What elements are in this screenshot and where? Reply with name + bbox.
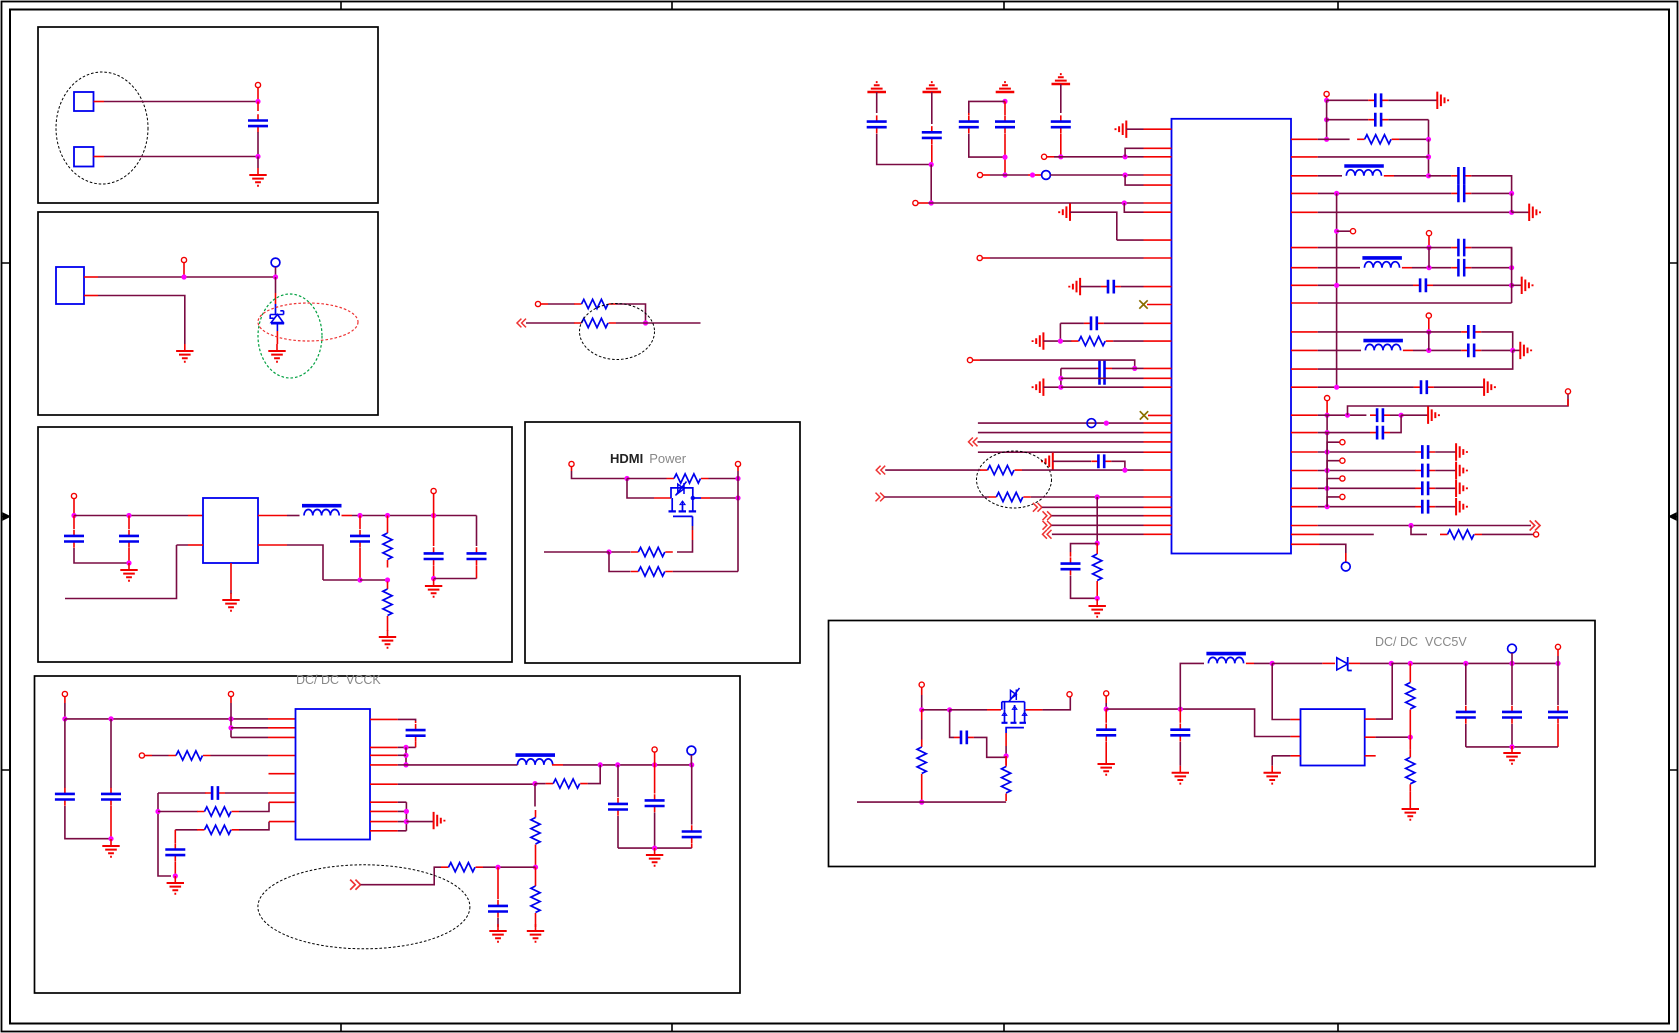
wire gnd pin row (1117, 239, 1172, 241)
junction (403, 745, 408, 750)
terminal T12 (1042, 154, 1061, 159)
capacitor C28 (1451, 259, 1471, 277)
capacitor C4 (350, 516, 370, 581)
wire branch down r16 (1411, 526, 1427, 535)
wire to gnd d (1513, 349, 1521, 351)
junction (1324, 98, 1329, 103)
ground (646, 848, 663, 866)
wire pin r11 (1291, 349, 1361, 351)
wire pin s0 (1291, 451, 1416, 453)
junction (1426, 329, 1431, 334)
wire capf corner (1481, 332, 1513, 351)
wire U3 enable (65, 545, 203, 599)
wire pin r13 (1291, 386, 1414, 388)
junction (652, 846, 657, 851)
junction (1334, 385, 1339, 390)
junction (1002, 99, 1007, 104)
wire Q1 source down (677, 526, 693, 552)
junction (1325, 449, 1330, 454)
resistor R2 (574, 318, 616, 327)
terminal T4 (71, 493, 76, 515)
wire branch down pin (1125, 175, 1171, 185)
resistor R9 (197, 807, 239, 816)
capacitor C21 (1091, 454, 1111, 468)
wire hpd row (885, 469, 980, 471)
wire gate row (922, 709, 950, 711)
terminal T18 (1350, 229, 1355, 234)
chevron d1 (1043, 511, 1052, 520)
wire row A left (1061, 367, 1100, 369)
highlight ellipse green (258, 294, 322, 378)
wire pin r15 (1291, 432, 1370, 434)
chevron d2 (1043, 521, 1052, 530)
resistor R10 (197, 825, 239, 834)
wire pin r2 (1291, 156, 1429, 158)
capacitor C22 (1061, 552, 1098, 598)
capacitor C36 (1096, 709, 1116, 757)
wire pin r16 (1291, 525, 1531, 527)
wire bottom rail (360, 579, 388, 581)
inductor L4 (1362, 258, 1402, 268)
wire l6 to node (1246, 662, 1272, 664)
junction (643, 320, 648, 325)
wire R8 to U4 (211, 755, 296, 757)
capacitor Cs0 (1415, 445, 1435, 459)
junction (1002, 155, 1007, 160)
junction (1426, 154, 1431, 159)
wire T8 down (64, 703, 66, 719)
label DC/DC VCC5V (1375, 635, 1467, 649)
terminal Ts3 (1340, 494, 1345, 499)
inductor L5 (1363, 341, 1403, 351)
wire caph to gnd (1434, 386, 1484, 388)
chevron row in (969, 438, 978, 447)
sub-sheet box 4 HDMI power (525, 422, 800, 663)
wire U3 fb (258, 545, 360, 580)
capacitor C7 (55, 719, 111, 839)
wire cap to gnd 3 (1435, 506, 1456, 508)
wire cap bottom rail (1466, 746, 1558, 748)
zener diode D1 (270, 311, 284, 324)
terminal T22 (1534, 532, 1539, 537)
wire q2 drain (1026, 697, 1071, 710)
sub-sheet box 5 DC/DC VCCK (35, 676, 741, 993)
wire node vertical c (1511, 193, 1513, 212)
ground (1264, 766, 1281, 784)
wire capi to node (1390, 414, 1401, 416)
capacitor C25 (1451, 167, 1471, 185)
capacitor C39 (1502, 663, 1522, 747)
regulator U5 (1301, 709, 1365, 765)
ground right c (1522, 277, 1533, 294)
wire fb vertical (534, 784, 536, 807)
wire R2 to node and out (616, 322, 701, 324)
junction (1104, 421, 1109, 426)
capacitor C5 (424, 516, 444, 579)
capacitor C19 (1084, 316, 1104, 330)
wire row A right (1104, 367, 1134, 369)
chevron d0 (1033, 503, 1042, 512)
junction (1555, 661, 1560, 666)
ground (1402, 802, 1419, 820)
ground (1089, 599, 1106, 617)
wire term stub 1 (1327, 461, 1340, 471)
ground (379, 630, 396, 648)
capacitor C43 (682, 765, 702, 848)
regulator U4 (296, 709, 371, 840)
wire xin row b (1050, 174, 1171, 176)
ground right (434, 812, 445, 829)
ground (1503, 746, 1520, 764)
wire chevron net (361, 867, 442, 885)
resistor R20 (1440, 530, 1482, 539)
junction (181, 274, 186, 279)
wire diode to rail (1349, 662, 1391, 664)
wire t20 vertical (1428, 332, 1430, 351)
wire term stub 0 (1327, 442, 1340, 452)
chevron d3 (1043, 530, 1052, 539)
ground right d (1520, 342, 1531, 359)
capacitor C18 (1101, 280, 1121, 294)
wire T10 to R8 (152, 755, 169, 757)
wire R1 to node (616, 304, 646, 323)
resistor R1 (574, 299, 616, 308)
ground right a (1437, 92, 1448, 109)
wire capj corner (1390, 415, 1401, 432)
power symbol P3 (996, 82, 1015, 92)
ground (102, 839, 119, 857)
resistor R7 (631, 567, 673, 576)
junction (357, 513, 362, 518)
wire pin r9 (1291, 302, 1512, 304)
wire ref vertical (1326, 100, 1328, 139)
ground cap row c (1069, 278, 1101, 295)
resistor R13 (441, 863, 483, 872)
junction (1095, 596, 1100, 601)
terminal T14 (913, 200, 928, 205)
highlight ellipse (258, 865, 470, 949)
wire to mosfet (950, 709, 1001, 711)
power symbol P4 (1052, 74, 1071, 84)
capacitor C26 (1451, 185, 1471, 203)
junction (1324, 137, 1329, 142)
wire cec row (978, 451, 1172, 453)
wire node to diode (1272, 662, 1335, 664)
wire Q1 drain (693, 497, 738, 499)
ground (167, 876, 184, 894)
capacitor C27 (1451, 239, 1471, 257)
wire fb to sw (588, 765, 601, 784)
junction (1334, 229, 1339, 234)
wire pin r8 (1291, 284, 1413, 286)
ground (176, 344, 193, 362)
wire input rail (74, 515, 203, 517)
label HDMI Power (610, 451, 687, 466)
wire fb row (535, 783, 546, 785)
capacitor C15 (959, 113, 1005, 157)
capacitor C12 (488, 867, 508, 927)
wire u5 fb (1365, 736, 1411, 738)
wire row B (1061, 377, 1172, 379)
inductor L2 (516, 755, 556, 765)
junction (273, 274, 278, 279)
terminal T20 (1426, 313, 1431, 332)
junction (1426, 348, 1431, 353)
junction (533, 865, 538, 870)
wire to gnd f (1401, 414, 1428, 416)
junction (255, 154, 260, 159)
wire gate net (627, 479, 671, 499)
junction (1509, 283, 1514, 288)
junction (1399, 413, 1404, 418)
wire pin s3 (1291, 506, 1416, 508)
wire l4 to node (1402, 267, 1451, 269)
wire row2 corner (1388, 120, 1428, 140)
wire to node (483, 866, 536, 868)
junction (228, 725, 233, 730)
junction (495, 865, 500, 870)
main IC U1 (1172, 119, 1292, 554)
junction (1058, 154, 1063, 159)
junction (1509, 191, 1514, 196)
wire cap to gnd 1 (1435, 470, 1456, 472)
wire cap to pin c (1121, 286, 1172, 288)
junction (255, 99, 260, 104)
svg-text:HDMIPower: HDMIPower (610, 451, 687, 466)
wire to gnd b (1512, 211, 1530, 213)
sub-sheet box 3 (38, 427, 512, 662)
ground s2 (1456, 480, 1467, 497)
junction (919, 800, 924, 805)
wire capc corner (1471, 248, 1511, 268)
wire U4 out2 (370, 746, 406, 748)
wire pin r4 (1291, 192, 1451, 194)
wire ref row1 (1327, 99, 1369, 101)
terminal T13 (977, 172, 990, 177)
capacitor C37 (1170, 709, 1190, 766)
capacitor C2 (64, 516, 129, 564)
wire U3 gnd pin (230, 563, 232, 594)
junction (1325, 486, 1330, 491)
junction (431, 513, 436, 518)
wire scl row (978, 432, 1172, 434)
wire pin r18 (1291, 544, 1346, 562)
wire R6 left (609, 551, 631, 553)
capacitor C33 (1370, 408, 1390, 422)
ground pin row a (1116, 121, 1172, 138)
wire rowAB corner (1060, 368, 1062, 387)
wire term stub 3 (1327, 497, 1340, 507)
junction (1270, 661, 1275, 666)
wire r1 to corner (1399, 138, 1428, 140)
junction (357, 577, 362, 582)
no connect x1 (1139, 300, 1171, 308)
junction (1002, 172, 1007, 177)
wire cap to gnd 0 (1435, 451, 1456, 453)
wire right vertical a (405, 747, 407, 765)
wire R7 to right (673, 571, 738, 573)
ground right e (1484, 379, 1495, 396)
junction (155, 809, 160, 814)
wire ref row2 (1327, 119, 1369, 121)
wire node to cap a (1429, 175, 1452, 177)
wire stub term (1337, 230, 1351, 232)
junction (598, 762, 603, 767)
capacitor C41 (608, 765, 628, 848)
capacitor C31 (1461, 344, 1481, 358)
capacitor C13 (867, 92, 932, 165)
junction (1324, 117, 1329, 122)
junction (1122, 200, 1127, 205)
capacitor C9 (158, 786, 296, 800)
capacitor C14 (922, 92, 942, 165)
mosfet Q2 (1002, 688, 1027, 733)
wire u5 nc stub (1365, 755, 1376, 757)
wire d2 row (1052, 524, 1172, 526)
ground s0 (1456, 443, 1467, 460)
terminal T2 (181, 257, 186, 277)
resistor R18 (1093, 543, 1102, 598)
junction (1178, 707, 1183, 712)
capacitor Cs2 (1415, 481, 1435, 495)
ground (527, 924, 544, 942)
wire term stub 2 (1327, 479, 1340, 489)
wire pin3 (231, 736, 296, 738)
wire U2 pin2 to ground (84, 296, 185, 345)
junction (1463, 661, 1468, 666)
power symbol P2 (923, 82, 942, 92)
terminal T7 (735, 461, 740, 478)
wire U3 out (258, 515, 300, 517)
junction (1325, 468, 1330, 473)
inductor L3 (1344, 166, 1384, 176)
wire d0 row (1042, 506, 1172, 508)
wire u5 out1 (1365, 663, 1393, 719)
wire ddc to pin (1031, 496, 1172, 498)
terminal T25 (1104, 691, 1109, 703)
terminal Ts2 (1340, 476, 1345, 481)
junction (108, 836, 113, 841)
wire fb loop top (1060, 322, 1084, 324)
resistor R23 (1406, 663, 1415, 737)
wire vdd row (928, 202, 1172, 204)
junction (929, 200, 934, 205)
junction (385, 513, 390, 518)
terminal T15 (977, 255, 990, 260)
junction (532, 781, 537, 786)
capacitor C32 (1414, 380, 1434, 394)
terminal T11 (652, 747, 657, 765)
terminal Ts1 (1340, 458, 1345, 463)
wire chevron to R2 (526, 322, 575, 324)
wire boost vertical (1180, 663, 1204, 709)
wire branch down pin b (1124, 203, 1171, 212)
ground (268, 344, 285, 362)
junction (1104, 707, 1109, 712)
wire cap pair top link (969, 101, 1005, 113)
wire sw to ic (1272, 663, 1300, 719)
wire hpd to pin (1022, 469, 1172, 471)
wire hpd corner (1111, 461, 1125, 470)
wire xin row (990, 174, 1042, 176)
junction (403, 753, 408, 758)
ground right b (1529, 204, 1540, 221)
wire row2 left (175, 829, 197, 831)
wire node down (609, 552, 631, 572)
resistor R12 (531, 810, 540, 867)
junction (1325, 413, 1330, 418)
wire ddc row (885, 496, 990, 498)
wire U4 out3 (370, 754, 406, 756)
ground (489, 924, 506, 942)
wire cap to gnd 2 (1435, 487, 1456, 489)
terminal T10 (139, 753, 152, 758)
wire u5 gnd (1272, 756, 1300, 766)
wire zener to ground (276, 324, 278, 344)
junction (173, 873, 178, 878)
highlight ellipse red (258, 303, 358, 341)
wire U4 gnd pins (370, 802, 406, 831)
capacitor C38 (1456, 663, 1476, 747)
diode D2 (1337, 657, 1352, 671)
inductor L1 (302, 506, 342, 516)
junction (108, 716, 113, 721)
capacitor C8 (101, 719, 121, 839)
wire row1 right (239, 802, 296, 811)
capacitor C20 shared (1100, 361, 1105, 385)
wire reset row (990, 257, 1172, 259)
connector pin 1 (74, 92, 94, 111)
ground s3 (1456, 498, 1467, 515)
resistor R14 (531, 867, 540, 927)
junction (1509, 265, 1514, 270)
wire right vertical (737, 479, 739, 572)
wire pin s1 (1291, 470, 1416, 472)
blue terminal sda (1087, 419, 1096, 428)
ground (1172, 766, 1189, 784)
junction (1345, 413, 1350, 418)
wire cape to node (1433, 284, 1512, 286)
wire int row (978, 441, 1172, 443)
terminal T16 (967, 358, 980, 363)
junction (1004, 753, 1009, 758)
wire branch up pin (1125, 148, 1171, 157)
junction (929, 162, 934, 167)
junction (1058, 339, 1063, 344)
junction (689, 762, 694, 767)
wire gnd stub (406, 821, 433, 823)
wire row1 left (158, 811, 198, 813)
junction (947, 707, 952, 712)
terminal T1 (255, 82, 260, 101)
junction (1334, 191, 1339, 196)
terminal T21 (1325, 396, 1330, 416)
blue terminal xtal (1042, 171, 1051, 180)
junction (919, 707, 924, 712)
junction (126, 560, 131, 565)
no connect x2 (1140, 411, 1172, 419)
wire vcck out bottom rail (618, 847, 692, 849)
wire res to pin (1113, 340, 1171, 342)
junction (652, 762, 657, 767)
resistor R8 (169, 751, 211, 760)
ground (222, 593, 239, 611)
chevron hpd (876, 466, 885, 475)
junction (735, 495, 740, 500)
junction (1408, 735, 1413, 740)
capacitor C16 (995, 101, 1015, 175)
wire row A pin (1135, 367, 1172, 369)
